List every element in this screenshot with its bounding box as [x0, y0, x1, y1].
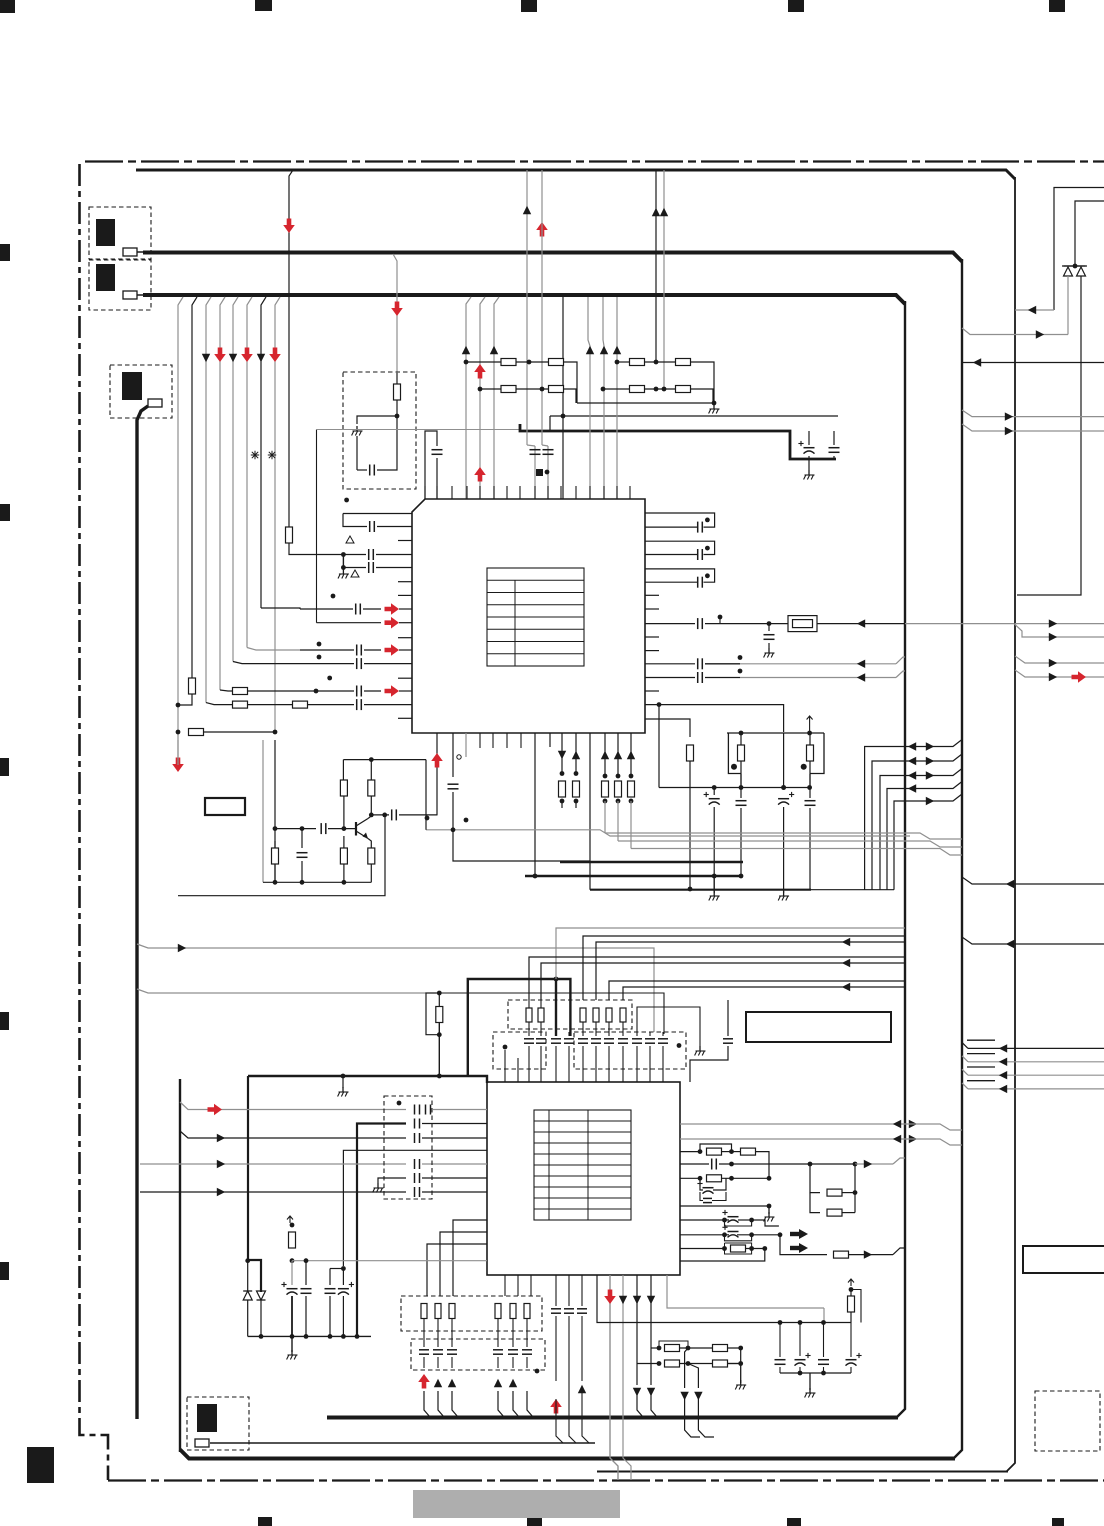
arrow marker up E1 [462, 346, 470, 354]
wire line 275 down [274, 740, 276, 882]
label box (right edge) [1023, 1246, 1104, 1273]
capacitor C40 [690, 1000, 733, 1082]
resistor R6/R7 + capacitor C14 (row 704) [206, 699, 412, 710]
capacitor CD527 [522, 1319, 532, 1368]
wire x783 down [781, 733, 786, 790]
resistor R12 (line 605) [601, 733, 609, 833]
wire bus3 tap F588 [588, 297, 590, 499]
IC U2 (bottom large QFP) [487, 1082, 680, 1275]
transistor Q1 [356, 819, 368, 839]
wire IC2 pin 1220 L [453, 1220, 487, 1296]
reference mark 1 [251, 451, 259, 459]
junction mark (solid square) [536, 469, 549, 476]
resistor R27 + loop [680, 1243, 767, 1254]
resistor R19 [368, 848, 375, 882]
wire bus3 tap 3 [206, 297, 211, 703]
wire row 787 [657, 702, 812, 790]
reference mark 2 [268, 451, 276, 459]
wire bus1 tap to IC1 (arrow up) [523, 170, 531, 445]
wire Q1 emitter [368, 839, 371, 850]
capacitor C3 [829, 431, 840, 459]
wire IC1 pin437 down (red arrow up) [431, 733, 443, 815]
wire output E (arrow right) [962, 424, 1104, 435]
wire Q1 collector [368, 815, 371, 819]
resistor RB438 [435, 1304, 441, 1319]
wire IC2 feed row 942 to bus3 [596, 938, 905, 1000]
pin stub IC1 left y718 [398, 717, 412, 719]
connector CN1 [89, 207, 151, 259]
resistor R18 [340, 836, 347, 885]
pin stub IC1 top 617 [616, 486, 618, 499]
wire row 746 to bus2 (double arrows) [865, 740, 962, 890]
pin stub IC1 top 604 [603, 486, 605, 499]
capacitor CC569 [564, 1032, 574, 1082]
diode D3 [243, 1291, 252, 1300]
wire IC2 feed row 981 to bus3 [609, 981, 905, 1000]
wire thick bridge 979 [468, 977, 571, 1076]
wire branch 1164 + capacitor C33 [140, 1159, 487, 1169]
wire from CN4 (bottom horizontal) [210, 1442, 595, 1444]
capacitor C41 (row 1164) to bus3 [680, 1158, 905, 1170]
IC U2 pin-map table [534, 1110, 631, 1220]
wire bus3 tap E3 [494, 297, 499, 499]
wire VCC thick trace above IC1 [520, 424, 836, 459]
wire bus3 tap E4 [561, 297, 566, 499]
resistor array dashed box (IC2 bottom) [401, 1296, 542, 1331]
wire diode tops [1062, 264, 1087, 269]
arrow marker down (net A3) [229, 354, 237, 362]
pin stub IC1 left y540 [398, 540, 412, 542]
resistor R5 + capacitor C13 + red arrow (row 691) [220, 685, 412, 697]
decoupling caps dashed box (IC2 left) [384, 1096, 432, 1199]
resonator X1 [728, 733, 744, 788]
pin stub IC1 bottom 507 [506, 733, 508, 748]
resistor R33 + capacitor C49 [846, 1279, 862, 1373]
wire input C into bus2 (arrow left) [962, 358, 1104, 366]
wire row 993 [137, 989, 664, 1034]
wire IC1 pin535 to rail [533, 733, 538, 878]
pin stub IC1 right 609 [645, 608, 659, 610]
diode D4 [257, 1291, 266, 1300]
capacitor C39 electrolytic [338, 1269, 354, 1339]
diode D1 [1064, 266, 1073, 276]
ground rail890 [778, 890, 789, 901]
wire IC2 feed row 963 to bus3 [541, 959, 905, 1000]
junction dot (row 595) [331, 594, 336, 599]
resistor R31/R32 row 1363 [637, 1360, 743, 1367]
capacitor C10 + red arrow (row 609) [300, 603, 412, 615]
wire 513 to rail [509, 1379, 519, 1417]
label box (transistor block) [205, 798, 245, 815]
wire row 1322 [597, 1275, 851, 1325]
resistor R20 with bypass loop [426, 991, 443, 1079]
pin stub 518 [517, 1058, 519, 1082]
wire bus3 tap 4 [220, 297, 225, 690]
resistor array dashed box (IC2 top) [508, 1000, 632, 1029]
resistor RB498 [495, 1304, 501, 1319]
resistor R21 + off-page arrow [287, 1216, 296, 1263]
resistor network rows 362/389 [464, 359, 577, 404]
wire bus2 tap to R-box (red arrow down) [391, 254, 403, 373]
wire branch 1150 [343, 1150, 487, 1266]
red arrow down (net A4) [241, 348, 253, 363]
pin stub IC1 top 630 [629, 486, 631, 499]
arrow up F2 [600, 346, 608, 354]
capacitor C16 loop (IC1 right 2) [645, 541, 715, 560]
IC U1 (top large QFP) [412, 499, 645, 733]
red arrow down (net A6) [269, 348, 281, 363]
pin stub IC1 left y595 [398, 594, 412, 596]
wire output row 624 [1015, 619, 1104, 627]
wire row 761 to bus2 (double arrows) [872, 754, 962, 890]
wire transistor bottom rail [263, 881, 371, 883]
pin stub IC1 top 480 [479, 486, 481, 499]
triangle mark a [346, 536, 354, 543]
capacitor CC637 [632, 1032, 642, 1082]
resistor R22 + bypass loop [680, 1144, 734, 1155]
capacitor C5 [527, 445, 541, 499]
resistor R26 [810, 1193, 855, 1217]
resistor block R8 (row 623) [788, 616, 817, 632]
wire 527 to rail [527, 1369, 539, 1417]
wire input row 1048.4 to bus2 [962, 1040, 1104, 1052]
capacitor C21 (row 677) to bus3 [645, 669, 905, 683]
capacitor CB541 [536, 1022, 546, 1082]
wire bus3 tap F617 [616, 297, 618, 499]
resistor RA529 [526, 1008, 532, 1022]
wire input row 1088.9 to bus2 [962, 1081, 1104, 1093]
pin stub IC1 top 494 [493, 486, 495, 499]
wire bus3 (thick signal bus) [143, 295, 905, 1418]
resistor R25 [810, 1164, 857, 1213]
resistor RB513 [510, 1304, 516, 1319]
pin stub down 550 [549, 733, 551, 747]
junction dot row 678 [327, 676, 332, 681]
wire IC2 feed row 936 to bus3 [583, 936, 905, 1000]
wire input B (from right edge) [1075, 201, 1104, 266]
capacitor C43 loop [700, 1192, 726, 1203]
dashed block (bottom right) [1035, 1391, 1100, 1451]
wire input row 1061.8 to bus2 [962, 1054, 1104, 1066]
wire rail 1336 [248, 1334, 371, 1339]
ground rail876 [709, 876, 720, 901]
resistor R13 (line 618) [614, 733, 622, 841]
capacitor C7 loop (IC1 pins 1-2) [343, 498, 412, 532]
wire thick feed to IC2 [248, 1074, 487, 1083]
IC U1 pin-map table [487, 568, 584, 666]
wire 637 down to rail [633, 1275, 643, 1417]
wire gray row 848 to bus2 [631, 849, 962, 856]
pin stub IC1 top 548 [547, 486, 549, 499]
pin stub IC1 bottom 480 [479, 733, 481, 748]
wire ground rail 403 + ground [577, 401, 720, 414]
pin stub IC1 top 561 [560, 486, 562, 499]
wire branch 1138 + capacitor C32 [180, 1131, 487, 1143]
pin stub IC1 top 437 [436, 486, 438, 499]
wire bus3 tap E1 [466, 297, 471, 499]
pin stub IC1 top 467 [466, 486, 468, 499]
wire node B (feed to IC1 left) [317, 430, 520, 623]
connector CN3 [110, 365, 172, 418]
resistor R14 (line 631) [627, 733, 635, 849]
capacitor CE582 + arrow up [577, 1275, 589, 1443]
wire gray row 1308 [667, 1275, 824, 1323]
wire thick x248 down to diodes [245, 1076, 261, 1292]
wire input A into bus1 (arrow left) [1015, 306, 1054, 314]
wire rail 1373 + ground [780, 1371, 851, 1398]
capacitor C27 (base coupling) [273, 823, 356, 834]
wire bus1 tap D (arrow up) [660, 170, 668, 391]
wire IC2 feed row 957 to bus3 [529, 957, 905, 1000]
wire bus3 tap 8 [275, 297, 280, 732]
capacitor C42 electrolytic loop [697, 1178, 726, 1193]
wire row 775 to bus2 (double arrows) [880, 769, 962, 890]
wire bus3 tap 1 [178, 297, 183, 765]
resistor RA623 [620, 1008, 626, 1022]
junction dots rows 644/657 [317, 642, 322, 660]
capacitor CD424 [419, 1319, 429, 1368]
junction dots (near Q1) [425, 816, 469, 823]
wire gray row 833 to bus2 [605, 833, 962, 839]
resistor RA583 [580, 1008, 586, 1022]
pin stub IC2 bottom 518 [517, 1275, 519, 1296]
capacitor C26 electrolytic [778, 790, 794, 890]
pin stub IC1 right 637 [645, 636, 659, 638]
wire bus3 tap E2 [480, 297, 485, 499]
resistor RB424 [421, 1304, 427, 1319]
resistor R9 vertical [687, 745, 694, 891]
arrow marker up E3 [490, 346, 498, 354]
wire output row 637 [1014, 624, 1104, 642]
arrow marker down (net A1) [202, 354, 210, 362]
wires diodes to rail [248, 1300, 264, 1339]
resistor R16 [368, 760, 375, 818]
wire bus3 tap 5 [233, 297, 238, 662]
capacitor C48 [818, 1323, 829, 1374]
pin stub down 466 [465, 733, 467, 757]
wire bus1 (outer supply bus) [136, 170, 1015, 1472]
wire row 1139 (double arrows) [680, 1135, 962, 1145]
wire bus3 tap 6 [247, 297, 252, 648]
capacitor C17 loop (IC1 right 3) [645, 569, 715, 588]
wire to D3 [247, 1261, 249, 1291]
wire row 1220 stair [752, 1220, 779, 1226]
pin stub IC1 right 691 [645, 690, 659, 692]
cap array dashed boxes (IC2 top) [493, 1032, 686, 1069]
resistor top stubs [529, 1000, 541, 1008]
resistor RA541 [538, 1008, 544, 1022]
red arrow down (net A2) [214, 348, 226, 363]
resistor R15 [340, 760, 347, 829]
triangle mark b [351, 570, 359, 577]
resistor R2 (line2) and junction [176, 678, 196, 707]
wire 651 down to rail [647, 1275, 657, 1417]
ground rail1336 [287, 1336, 298, 1359]
ground on feed [338, 1076, 349, 1097]
pin stub IC2 bottom 531 [530, 1275, 532, 1296]
resistor network rows right half [615, 359, 714, 404]
capacitor CD452 [447, 1319, 457, 1368]
wire feedback loop 895 [178, 815, 385, 896]
wire row 623 across buses [817, 619, 1014, 627]
capacitor CC663 [658, 1032, 668, 1082]
capacitor CB529 [524, 1022, 534, 1082]
pin stub IC1 top 535 [534, 486, 536, 499]
pin stub IC1 left y678 [398, 677, 412, 679]
wire row 1206 [680, 1204, 771, 1209]
capacitor C6 [542, 445, 554, 499]
pin stub IC1 bottom 521 [520, 733, 522, 748]
wire thick row 862 [560, 861, 743, 863]
capacitor CC623 [618, 1022, 628, 1082]
wire IC2 pin 1244 L [427, 1244, 487, 1296]
wire row 719 to R9 [645, 719, 690, 737]
wire row 788 to bus2 (arrow left) [887, 782, 962, 890]
pin stub IC1 top 507 [506, 486, 508, 499]
capacitor C25 electrolytic [704, 788, 720, 879]
wire thick rail 876 [525, 875, 743, 878]
wire gray 610 down (red arrow) [604, 1275, 618, 1480]
label box (white rectangle) [746, 1012, 891, 1042]
capacitor C38 [325, 1266, 346, 1339]
resistor R28 to bus3 [780, 1235, 905, 1259]
capacitor CD438 [433, 1319, 443, 1368]
capacitor C36 electrolytic [281, 1261, 297, 1339]
wire bus3 tap 7 [261, 297, 266, 608]
wire IC1 pin590 down [589, 733, 591, 890]
pin stub IC2 bottom 505 [504, 1275, 506, 1296]
no-connect circle [457, 755, 461, 759]
ground tie row 554/567 [338, 555, 349, 579]
resonator X2 [801, 733, 824, 788]
pin stub IC1 right 650 [645, 650, 659, 652]
connector CN4 [187, 1397, 249, 1450]
wire input row 1075.2 to bus2 [962, 1067, 1104, 1079]
wire bus1 tap to IC1 (red arrow up) [536, 170, 548, 445]
capacitor C47 electrolytic [795, 1320, 811, 1373]
pin stub IC1 top 425 [424, 486, 426, 499]
wire row 1261 return [680, 1249, 765, 1262]
wire row 948 (arrow right) [137, 944, 654, 1032]
capacitor CC596 [591, 1022, 601, 1082]
arrow marker down (net A5) [257, 354, 265, 362]
red arrow down (line1 lower) [172, 740, 184, 772]
wire output D (arrow right) [962, 410, 1104, 421]
wire row 1260 gray [292, 1258, 487, 1263]
capacitor C45 electrolytic pair [680, 1225, 782, 1241]
wire bus2 (thick supply loop) [143, 253, 962, 1460]
capacitor CC650 [645, 1032, 655, 1082]
pin stub IC1 left y581 [398, 581, 412, 583]
arrow up F1 [586, 346, 594, 354]
ground row 1363 [735, 1364, 746, 1390]
wire D2 down to bus1 [1017, 276, 1081, 595]
wire IC2 pin 1232 L [440, 1232, 487, 1296]
wire IC2 feed row 987 to bus3 [623, 983, 905, 1000]
wire resonator tops + off-page arrow [727, 716, 824, 735]
capacitor C44 electrolytic pair [680, 1210, 754, 1226]
resistor RA596 [593, 1008, 599, 1022]
capacitor CC556 [551, 1032, 561, 1082]
wire R1 to row [289, 543, 298, 555]
red arrow up E2 lower [474, 467, 486, 482]
pin stub IC1 left y637 [398, 637, 412, 639]
wire row 861 [451, 827, 590, 861]
wire gray row 928 [556, 928, 905, 979]
RC filter block (dashed) [343, 372, 416, 489]
wire bus3 tap F603 [603, 297, 604, 499]
red arrow up E2 [474, 364, 486, 379]
ground cap row [637, 1007, 706, 1056]
capacitor C46 [775, 1323, 786, 1374]
wire gray left (transistor block) [262, 740, 264, 882]
capacitor C9 (row 567) [343, 562, 412, 573]
wire row 801 to bus2 (arrow right) [894, 794, 962, 890]
resistor RA609 [606, 1008, 612, 1022]
resistor R3 row 732 [176, 729, 278, 736]
wire branch 1123 thick + capacitor C31 [357, 1119, 487, 1337]
capacitor C37 [301, 1261, 312, 1339]
ground row 1206 [764, 1206, 775, 1222]
wire bus3 tap 2 [192, 297, 197, 679]
resistor RB452 [449, 1304, 455, 1319]
wire transistor top rail [343, 757, 426, 762]
wire row 1124 (double arrows) [680, 1120, 962, 1130]
resistor RB527 [524, 1304, 530, 1319]
pin stub IC1 bottom 493 [492, 733, 494, 748]
wire pin 505 [504, 1050, 506, 1082]
capacitor CE569 [564, 1275, 576, 1443]
capacitor CC609 [604, 1022, 614, 1082]
capacitor C29 (output coupling) [371, 809, 437, 820]
pin stub IC1 top 590 [589, 486, 591, 499]
wire bus1 tap C (arrow up) [652, 170, 660, 362]
red arrow up + wire to bus3 rail (424) [418, 1374, 430, 1417]
wire from CN3 (thick vertical) [137, 406, 148, 1419]
capacitor C18 (row 623) [645, 615, 788, 630]
wire thick rail 890 [590, 889, 894, 891]
capacitor C22 (line 453) [448, 733, 459, 830]
capacitor C1 in dashed box [357, 414, 399, 476]
capacitor CE556 + red arrow [550, 1275, 563, 1443]
resistor R24 [680, 1175, 771, 1182]
capacitor C12 (row 663) [233, 658, 412, 669]
diode D2 [1077, 266, 1086, 276]
wire 452 to rail (arrow up) [448, 1379, 458, 1417]
arrow up F3 [613, 346, 621, 354]
wire 684 down [680, 1348, 700, 1437]
capacitor C15 loop (IC1 right 1) [645, 513, 715, 533]
resistor R17 [272, 841, 279, 885]
wire 438 to rail [434, 1379, 444, 1417]
connector CN2 [89, 260, 151, 310]
capacitor C20 (row 664) to bus3 [645, 655, 905, 669]
resistor R10 (line 562) [558, 733, 566, 808]
label plate (bottom) [413, 1490, 620, 1518]
wire bus2 to D1 (arrow right) [962, 276, 1068, 339]
wire x426 down [425, 760, 427, 830]
capacitor C23 [736, 774, 747, 878]
wire input A (from right edge) [1054, 188, 1104, 311]
wire input row 884 to bus2 [962, 877, 1104, 888]
wire branch 1110 (red arrow) caps C30 [180, 1102, 487, 1115]
capacitor CD513 [508, 1319, 518, 1368]
wire gray row 830 [426, 830, 910, 836]
wire 498 to rail [494, 1379, 504, 1417]
wire gray 623 down (arrow) [619, 1275, 631, 1480]
wire row 704 to resonator block [645, 705, 784, 732]
resistor R1 (on bus1 tap) [286, 527, 293, 543]
